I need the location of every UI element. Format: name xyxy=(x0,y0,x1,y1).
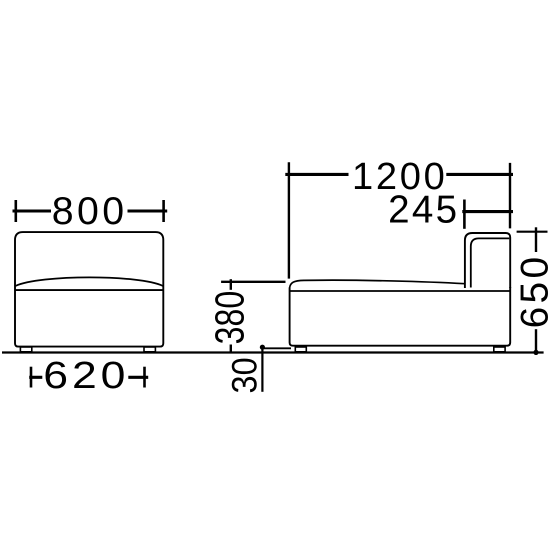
svg-text:30: 30 xyxy=(225,357,264,393)
svg-text:245: 245 xyxy=(388,188,459,231)
svg-text:620: 620 xyxy=(43,353,129,396)
svg-text:650: 650 xyxy=(513,254,550,329)
svg-text:800: 800 xyxy=(52,189,128,233)
svg-text:380: 380 xyxy=(207,291,252,345)
